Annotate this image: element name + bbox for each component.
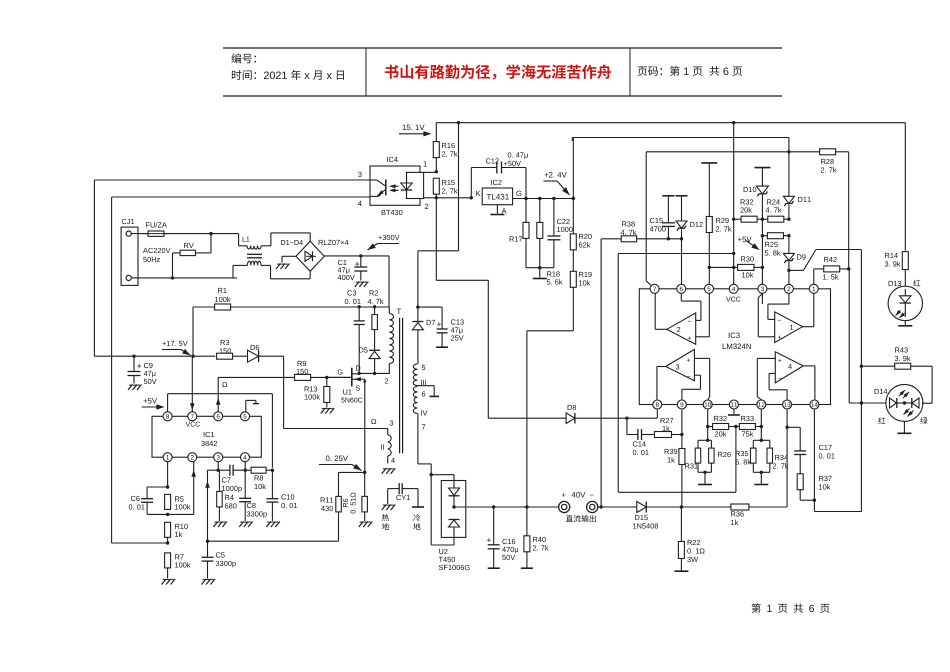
IC1 pin 6 (214, 412, 223, 421)
IC4 phototransistor (370, 179, 377, 181)
wire R32 R24 row (734, 218, 741, 220)
node D9 pin2 (787, 269, 790, 272)
node C3 top (358, 305, 361, 308)
ground TL431 A (490, 214, 504, 216)
header divider 2 (629, 48, 631, 96)
node C17 branch (785, 426, 788, 429)
ground R13 (321, 408, 326, 414)
connector CJ1 (121, 227, 138, 285)
capacitor C13 (418, 306, 442, 308)
IC1 pin 4 (241, 453, 250, 462)
node 0.25V R6 sense (363, 471, 366, 474)
IC1 pin 3 (214, 453, 223, 462)
wire R1 left leg (192, 307, 194, 356)
wire winding IV to U2 (417, 413, 419, 464)
capacitor C14 (626, 418, 628, 434)
wire TL431 G (513, 198, 574, 200)
wire D6 to winding II (259, 355, 284, 357)
ground C1 (355, 282, 360, 288)
rail R28 down to R42 (848, 152, 850, 269)
wire sense to output (572, 287, 574, 331)
transformer winding II aux (371, 419, 376, 424)
zener D9 (788, 236, 790, 254)
node D7 C13 (416, 305, 419, 308)
IC3 pin 3 (758, 284, 767, 293)
resistor R8 (245, 469, 251, 471)
node G C12R (524, 197, 527, 200)
bus 15.1V top (436, 122, 905, 124)
capacitor C12 (470, 168, 472, 198)
zener D11 (788, 152, 790, 197)
ground R18 bar (533, 278, 547, 280)
wire drain rail (359, 372, 390, 374)
IC3 pin 4 (729, 284, 738, 293)
node VCC bus (732, 121, 735, 124)
wire pin8 down (656, 409, 658, 418)
wire pin14 loop (813, 409, 815, 511)
op-amp 4 (775, 352, 803, 383)
wire pin5 to op2 plus (708, 294, 710, 337)
node pin4 C8 (244, 469, 247, 472)
resistor R14 (902, 252, 908, 270)
wire pin11 stub (733, 409, 735, 414)
rail pin3 +5V (761, 236, 763, 289)
node C3 drain (358, 372, 361, 375)
ground D14 bar (903, 421, 905, 432)
bus R28 line (788, 138, 790, 152)
ground D13 bar (904, 321, 906, 326)
node R32 R33 mid (734, 425, 737, 428)
resistor pair R31 R26 bracket (706, 439, 709, 442)
rail D10 node down (761, 219, 763, 236)
resistor R18 (539, 199, 541, 223)
resistor R28 (820, 149, 836, 155)
ground C10 (266, 522, 271, 528)
diode D8 (566, 413, 575, 424)
wire R36 to pin13 riser (749, 506, 787, 508)
node pin1 C6 R5 (166, 485, 169, 488)
header rule bottom (223, 95, 782, 97)
label AC220V 50Hz (143, 248, 171, 253)
capacitor C10 (271, 470, 273, 499)
wire IC4 pin1 (424, 171, 437, 173)
node C15 R38 (667, 237, 670, 240)
wire pin9 down (681, 409, 683, 448)
wire op4 minus to pin13 (769, 372, 775, 374)
resistor pair R35 R34 bracket (760, 439, 763, 442)
rail pin7 from bus (645, 152, 647, 281)
resistor R22 (680, 507, 682, 542)
node U2 top branch (430, 473, 433, 476)
wire to D8 (436, 279, 488, 281)
terminal output minus (587, 501, 598, 512)
wire primary top rail (231, 306, 389, 308)
node +300V C1 (359, 254, 362, 257)
IC3 pin 11 (729, 400, 738, 409)
wire left rail to R10 R7 node (112, 542, 168, 544)
label +2.4V with arrow (544, 172, 566, 177)
wire pin6 output (217, 377, 219, 411)
wire TL431 anode (496, 205, 498, 214)
wire N neutral (131, 277, 237, 279)
inductor L1 (243, 237, 250, 242)
op-amp 2 (667, 313, 696, 345)
wire pin8 +5V leg (167, 394, 169, 412)
zener D12 (676, 195, 688, 197)
wire op1 output to pin1 (803, 326, 814, 328)
wire pin13 down (786, 409, 788, 427)
controller IC1 3842 box (152, 416, 261, 457)
resistor R38 (601, 238, 621, 240)
ground R7 (162, 579, 167, 585)
IC4 light arrows (391, 185, 399, 187)
wire op3 plus to pin10 (694, 357, 709, 359)
node R2 top (373, 305, 376, 308)
capacitor C17 (787, 426, 800, 428)
wire U2 bottom branch (431, 544, 454, 546)
wire D14 right (922, 402, 932, 404)
resistor R26 (709, 448, 715, 463)
wire L live (131, 233, 148, 235)
bridge rectifier D1-D4 RLZ07x4 (296, 241, 324, 271)
diode D10 rail (754, 167, 770, 169)
capacitor C7 (218, 469, 230, 471)
rail +2.4V sense (572, 138, 574, 199)
feedback loop wire big box (735, 427, 737, 493)
wire +17.5V rail (94, 355, 215, 357)
node 15.1V D7 rail (457, 121, 460, 124)
wire DC output (454, 506, 559, 508)
resistor R29 (701, 162, 717, 164)
resistor R24 (768, 216, 784, 222)
wire bridge AC left to ground (282, 255, 296, 257)
resistor R20 (570, 234, 576, 250)
label +17.5V with arrow (162, 341, 187, 346)
resistor R33 75k (739, 424, 755, 430)
label +5V arrow right (738, 237, 752, 242)
resistor R32 lower 20k (708, 426, 713, 428)
node R37 pin14 rail (813, 499, 816, 502)
resistor R15 (433, 178, 439, 194)
winding I bottom wire (388, 364, 390, 374)
header rule top (223, 47, 782, 49)
wire R17 R18 C22 common (526, 267, 554, 269)
node R8 C10 (271, 469, 274, 472)
transformer winding I primary (388, 307, 390, 314)
node R27 pin9 (680, 433, 683, 436)
ground pin11 bar (728, 414, 740, 416)
ground CY1 cold bar (417, 489, 419, 507)
rail top bus right to R14 (904, 123, 906, 251)
header divider 1 (365, 48, 367, 96)
capacitor C16 (493, 507, 495, 545)
resistor R2 (374, 307, 376, 315)
wire RV right leg (196, 252, 212, 254)
IC3 pin 12 (757, 400, 766, 409)
wire pin12 down (760, 409, 762, 440)
terminal output plus (559, 501, 570, 512)
transformer winding III (422, 365, 426, 370)
optocoupler IC4 BT430 box (370, 166, 420, 205)
label +300V with arrow (378, 235, 399, 240)
varistor RV (180, 250, 195, 255)
resistor R17 (525, 199, 527, 223)
diode D7 (417, 307, 419, 321)
node D12 R38 (680, 237, 683, 240)
wire pin8 top to R8 rail (168, 393, 273, 395)
node RV-neutral junction (171, 276, 174, 279)
resistor R6 0.51ohm (364, 472, 366, 496)
node R15 pin2 (435, 196, 438, 199)
node C5 (206, 540, 209, 543)
wire RV left leg (173, 252, 181, 254)
resistor R27 (655, 432, 672, 438)
capacitor C5 (207, 541, 209, 557)
ground R31 R26 bar (698, 484, 712, 486)
winding III tap 6 (418, 385, 435, 387)
node R22 (680, 505, 683, 508)
IC1 pin 7 (188, 412, 197, 421)
node K C12 (470, 196, 473, 199)
ground R6 (359, 522, 364, 528)
node D5 drain (373, 372, 376, 375)
wire pin3 to C5 branch (208, 469, 219, 471)
resistor R4 (218, 470, 220, 491)
resistor R13 (326, 377, 328, 386)
rail R38 to output (600, 239, 602, 507)
node gate R13 (325, 376, 328, 379)
IC1 pin 2 (188, 453, 197, 462)
wire pin7 VCC (191, 356, 193, 411)
resistor R16 (433, 142, 439, 158)
node +2.4V (572, 197, 575, 200)
wire L1 bottom to bridge (270, 265, 272, 278)
rail VCC down (733, 123, 735, 289)
wire op4 output to pin14 (803, 365, 815, 367)
IC3 pin 14 (810, 400, 819, 409)
resistor R30 (709, 266, 737, 268)
capacitor C6 (147, 486, 168, 488)
wire pin4 down (244, 462, 246, 470)
wire IC4 pin2 (424, 197, 437, 199)
resistor R34 (767, 448, 773, 463)
resistor R35 (751, 448, 757, 463)
node fuse-RV junction (209, 232, 212, 235)
wire op2 output to pin7 (654, 294, 656, 330)
IC4 photodiode box (407, 172, 424, 198)
zener D10 (756, 186, 768, 194)
ground CY1 hot (382, 505, 387, 511)
IC3 pin 2 (784, 284, 793, 293)
IC3 pin 7 (650, 284, 659, 293)
rectifier U2 T450 SF1006G (441, 481, 466, 538)
capacitor C15 (662, 195, 674, 197)
ground C9 (128, 385, 133, 391)
wire feedback to TL431 K (436, 197, 471, 199)
wire pin3 to op1 minus (761, 294, 763, 305)
wire D8 line (488, 417, 566, 419)
capacitor C8 (244, 470, 246, 498)
wire op3 minus to pin9 (694, 374, 700, 376)
opamp IC3 LM324N box (639, 289, 830, 405)
resistor R11 (339, 471, 365, 473)
node R5 bottom pin2 wire (166, 513, 169, 516)
node C16 (492, 505, 495, 508)
label 15.1V with arrow (403, 125, 425, 130)
IC1 pin 8 (163, 412, 172, 421)
resistor R31 (695, 448, 701, 463)
capacitor C3 (358, 307, 360, 321)
resistor R10 (165, 522, 171, 537)
wire +300V down to primary rail (388, 256, 390, 307)
MOSFET U1 5N60C (327, 376, 352, 378)
resistor R43 (861, 365, 894, 367)
wire op4 plus to pin12 (757, 357, 775, 359)
ground C5 (202, 579, 207, 585)
IC4 zener diode (406, 172, 408, 183)
LED D14 dual (886, 384, 923, 421)
wire bridge output +300V (324, 255, 389, 257)
resistor R39 (679, 449, 685, 465)
diode D6 (248, 350, 259, 362)
node C9 (132, 355, 135, 358)
node R43 (860, 365, 863, 368)
resistor R7 (165, 553, 171, 568)
ground R4 (213, 522, 218, 528)
resistor R32 upper 20k (741, 216, 757, 222)
label 40V DC output (562, 493, 566, 497)
wire pin3 jog to op1 plus (758, 294, 762, 298)
resistor R3 (217, 353, 233, 359)
footer page label (751, 603, 829, 613)
IC3 pin 6 (677, 284, 686, 293)
wire L1 top to bridge (270, 233, 272, 246)
IC3 pin 5 (705, 284, 714, 293)
wire output to D15 (598, 506, 637, 508)
node G C22 (552, 197, 555, 200)
resistor R25 (762, 235, 767, 237)
IC1 pin 5 (241, 412, 250, 421)
IC3 pin 10 (703, 400, 712, 409)
node G R18 (538, 197, 541, 200)
capacitor C22 (553, 199, 555, 237)
IC1 pin5 hook (245, 400, 247, 411)
IC3 pin 8 (653, 400, 662, 409)
IC3 pin 1 (809, 284, 818, 293)
header label bianhao (231, 53, 256, 63)
resistor R37 (797, 474, 803, 490)
transformer T core (399, 318, 401, 453)
diode D15 1N5408 (637, 502, 647, 513)
wire pin3 down (217, 462, 219, 470)
label +5V with arrow (143, 398, 157, 403)
node pin1 R15 (435, 170, 438, 173)
label 0.25V with arrow (326, 456, 348, 462)
wire comparator rail down (860, 250, 862, 404)
wire R28 rail joins D14 wire (848, 269, 850, 403)
resistor R9 (295, 374, 311, 380)
ground C8 (239, 522, 244, 528)
wire pin2 to op1 staircase (788, 294, 790, 305)
wire pin6 omega line to R9 (218, 376, 294, 378)
header label yema (638, 66, 743, 76)
wire pin6 to op2 minus (680, 294, 682, 302)
wire pin10 down (707, 409, 709, 440)
wire pin2 to comparator rail (789, 269, 804, 271)
wire pin1 down (167, 462, 169, 487)
wire opto pin3 rail (94, 179, 370, 181)
wire opto pin4 rail (112, 196, 370, 198)
wire D15 to R36 (646, 506, 730, 508)
node R38 rail output (599, 505, 602, 508)
wire to L1 top (211, 233, 239, 235)
IC1 pin 1 (163, 453, 172, 462)
resistor R36 (731, 504, 749, 510)
regulator IC2 TL431 (482, 188, 512, 205)
wire 15.1V to D7 rail (458, 123, 460, 251)
ground R35 R34 bar (754, 484, 768, 486)
header slogan (385, 64, 611, 79)
node R40 (525, 505, 528, 508)
capacitor CY1 (388, 488, 400, 490)
wire pin2 leg (193, 462, 195, 515)
resistor R5 (165, 494, 171, 509)
ground bridge (276, 264, 281, 270)
capacitor C1 (360, 256, 362, 267)
IC3 pin 13 (783, 400, 792, 409)
resistor R1 (193, 306, 215, 308)
header label shijian (232, 70, 344, 80)
ground winding II (382, 468, 387, 474)
transformer winding IV (413, 387, 417, 414)
LED D13 (888, 286, 922, 320)
node C14 branch (625, 417, 628, 420)
diode D5 (369, 349, 380, 351)
D14 diode pair (890, 398, 897, 408)
node pin3 C7 R4 (217, 469, 220, 472)
resistor R19 (570, 271, 576, 287)
capacitor C9 (133, 356, 135, 371)
wire D14 left (849, 402, 886, 404)
node R1 VCC rail (191, 355, 194, 358)
bus +2.4V top (572, 137, 789, 139)
wire C5 node to R11 (208, 540, 339, 542)
IC3 pin 9 (677, 400, 686, 409)
resistor R40 (526, 507, 528, 536)
label VCC pin4 (726, 297, 740, 302)
op-amp 3 (666, 349, 695, 380)
resistor R42 (814, 268, 824, 270)
wire op3 output to pin8 (657, 366, 666, 368)
fuse FU/ZA (148, 231, 164, 236)
op-amp 1 (775, 312, 803, 343)
